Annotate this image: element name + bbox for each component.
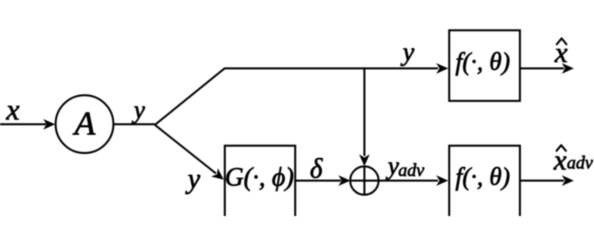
svg-text:x: x xyxy=(554,37,568,69)
svg-text:A: A xyxy=(73,105,96,142)
svg-text:δ: δ xyxy=(310,153,323,183)
svg-text:f(·, θ): f(·, θ) xyxy=(455,49,510,76)
svg-text:G(·, ϕ): G(·, ϕ) xyxy=(225,163,294,192)
svg-text:x: x xyxy=(5,94,20,127)
svg-text:f(·, θ): f(·, θ) xyxy=(455,164,510,191)
svg-text:y: y xyxy=(400,38,415,67)
svg-text:adv: adv xyxy=(567,153,593,173)
svg-text:adv: adv xyxy=(398,160,424,180)
svg-text:y: y xyxy=(185,164,201,195)
svg-text:y: y xyxy=(131,97,146,124)
